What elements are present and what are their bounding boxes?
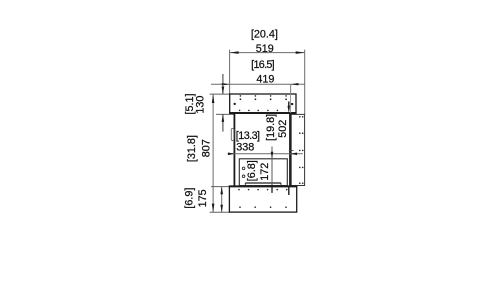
extension line 419 right (rear wall): [290, 84, 292, 113]
arrow 338 left (outside, right-pointing): [228, 153, 235, 156]
arrow 130 top (outside, down): [222, 87, 225, 95]
extension line 419 right through box: [290, 84, 292, 113]
dimension line 419: [211, 83, 305, 85]
dimension line 175: [221, 187, 223, 213]
svg-text:[16.5]: [16.5]: [251, 59, 275, 71]
top box screw dots row B: [240, 98, 288, 100]
top box screw dots row A: [240, 95, 287, 97]
opening fastener circles: [242, 167, 245, 170]
arrow 502 top (outside, down) with shaft: [288, 102, 290, 107]
main body right wall: [289, 114, 291, 186]
dimension 130 upper segment: [222, 74, 224, 94]
left wall capsule handle: [231, 128, 234, 140]
arrow 519 right: [296, 51, 305, 54]
dimension line 519: [230, 52, 305, 54]
arrow 807 top: [212, 94, 215, 103]
arrow 130 bottom (outside, up): [222, 114, 225, 122]
rear duct box: [291, 114, 304, 185]
top box side fastener right: [291, 103, 293, 105]
extension top edge to left: [210, 93, 230, 95]
bottom box screw dots row 1: [238, 189, 287, 191]
svg-text:519: 519: [256, 43, 274, 55]
extension bottom box top to left: [211, 186, 230, 188]
arrow 175 top (up): [220, 187, 223, 195]
inner firebox opening: [239, 159, 287, 186]
burner strip: [245, 182, 281, 184]
arrow 419 left (outside): [222, 83, 230, 85]
extension body top to left: [216, 113, 234, 115]
svg-text:807: 807: [201, 139, 213, 157]
arrow 172 top (outside, down): [271, 152, 274, 159]
top box side fastener left: [234, 103, 236, 105]
bottom box flange: [229, 186, 296, 212]
svg-text:[13.3]: [13.3]: [236, 130, 260, 142]
svg-text:502: 502: [277, 120, 289, 138]
dimension line 338: [228, 153, 303, 155]
dimension 130 lower segment: [222, 115, 224, 132]
top box thick bottom edge: [229, 112, 296, 114]
extension line left (519/419 front face): [229, 50, 231, 94]
svg-text:172: 172: [259, 163, 271, 181]
extension bottom box bottom to left: [210, 211, 230, 213]
502 arrow shaft over bottom box: [288, 187, 290, 196]
top box screw dots bottom row: [239, 110, 278, 112]
bottom box screw dots row 2: [239, 206, 287, 208]
top box flange: [230, 94, 296, 113]
svg-text:[19.8]: [19.8]: [265, 114, 277, 141]
arrow 807 bottom: [212, 204, 215, 213]
dimension line 807: [212, 94, 214, 212]
arrow 519 left: [230, 51, 239, 54]
rear duct tick: [289, 149, 294, 151]
dimension line 172: [271, 147, 273, 194]
svg-text:175: 175: [197, 189, 209, 207]
arrow 502 bottom (outside, up) with shaft: [288, 186, 291, 193]
svg-text:[20.4]: [20.4]: [251, 28, 278, 40]
rear duct dot pairs: [299, 116, 304, 184]
svg-text:[6.9]: [6.9]: [184, 188, 196, 209]
arrow 175 bottom (down): [220, 205, 223, 213]
svg-text:[6.8]: [6.8]: [246, 160, 258, 181]
bottom box thick top edge: [229, 185, 297, 187]
svg-text:130: 130: [195, 96, 207, 114]
arrow 419 right (outside): [291, 83, 299, 85]
svg-text:[31.8]: [31.8]: [186, 135, 198, 162]
arrow 172 bottom (outside, up): [271, 183, 274, 190]
extension line right rear (519): [304, 50, 306, 115]
svg-text:419: 419: [256, 74, 274, 86]
svg-text:338: 338: [236, 142, 254, 154]
arrow 338 right (outside, left-pointing): [290, 153, 297, 156]
172 arrow shaft over bottom box: [271, 187, 273, 193]
main body left wall: [233, 114, 235, 186]
